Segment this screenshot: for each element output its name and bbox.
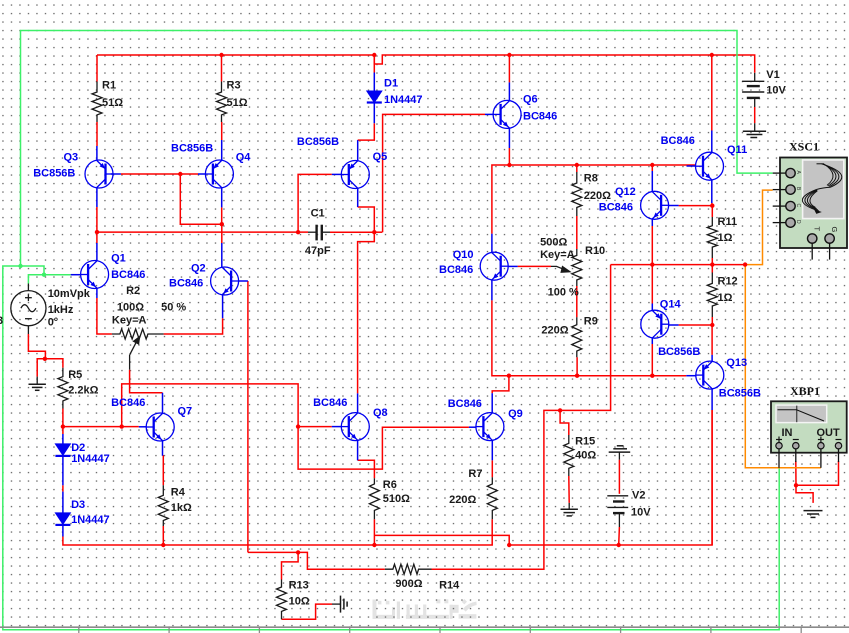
node Q3 base tie bbox=[178, 172, 182, 176]
pin Q3 collector bbox=[96, 146, 98, 160]
wire gnd branch bbox=[37, 359, 45, 377]
pin Q13 collector bbox=[711, 355, 713, 361]
wire Q8 collector long riser bbox=[358, 232, 375, 393]
pin Q2 emitter bbox=[222, 295, 224, 318]
resistor R6 510ohm bbox=[369, 478, 379, 519]
resistor R9 220ohm bbox=[572, 317, 582, 357]
transistor Q1 bbox=[81, 261, 109, 289]
wire R12 top lead bbox=[711, 265, 713, 273]
wire XBP1 IN- down bbox=[795, 461, 797, 485]
node rail Q6 bbox=[507, 53, 511, 57]
node green left bbox=[18, 264, 22, 268]
wire V+ top rail bbox=[97, 54, 374, 56]
pin Q9 collector bbox=[491, 393, 493, 413]
svg-text:1Ω: 1Ω bbox=[718, 292, 733, 304]
transistor Q12 bbox=[641, 191, 669, 219]
wire Q11 collector to rail bbox=[711, 55, 713, 131]
node C1 left bbox=[296, 230, 300, 234]
wire base node down to Q4 collector node bbox=[180, 174, 222, 224]
pin Q6 collector bbox=[508, 82, 510, 100]
node R7 rail bbox=[507, 543, 511, 547]
pin Q8 base bbox=[332, 426, 342, 428]
svg-text:2.2kΩ: 2.2kΩ bbox=[68, 385, 98, 397]
wire R1 to Q3 bbox=[96, 122, 98, 146]
wire Q3 collector down bbox=[96, 207, 98, 232]
wire output to scope B bbox=[745, 190, 773, 265]
resistor R7 220ohm bbox=[487, 477, 497, 519]
svg-text:BC846: BC846 bbox=[111, 397, 145, 409]
resistor R15 40ohm bbox=[564, 435, 574, 476]
svg-text:BC846: BC846 bbox=[448, 398, 482, 410]
pin Q1 collector bbox=[96, 243, 98, 261]
transistor Q11 bbox=[696, 152, 724, 180]
wire V3 plus lead bbox=[28, 275, 44, 284]
scope terminal B bbox=[773, 189, 786, 191]
wire node to Q14 collector bbox=[651, 265, 653, 304]
svg-text:1kHz: 1kHz bbox=[48, 304, 74, 316]
wire Q8 base stub bbox=[298, 426, 332, 428]
resistor R8 220ohm bbox=[572, 172, 582, 216]
wire Q7 Q8 base tie top bbox=[122, 384, 298, 427]
diode D2 1N4447 bbox=[55, 444, 70, 456]
svg-text:BC846: BC846 bbox=[439, 264, 473, 276]
node green V3 bbox=[42, 273, 46, 277]
svg-text:Key=A: Key=A bbox=[540, 249, 575, 261]
svg-text:900Ω: 900Ω bbox=[395, 578, 422, 590]
XBP1 terminal IN+ bbox=[776, 437, 782, 443]
node R15 tap bbox=[558, 408, 562, 412]
node Q1 collector bbox=[95, 230, 99, 234]
wire node to Q8 collector bbox=[374, 231, 382, 233]
wire R12 bottom to node bbox=[711, 317, 713, 325]
wire Q10 base to R10 wiper bbox=[518, 265, 551, 267]
svg-text:1N4447: 1N4447 bbox=[384, 94, 423, 106]
svg-text:BC856B: BC856B bbox=[658, 346, 700, 358]
transistor Q9 bbox=[476, 413, 504, 441]
wire Q13 emitter down bbox=[711, 410, 713, 545]
pin Q3 base bbox=[111, 173, 121, 175]
pin D2 top bbox=[62, 434, 64, 444]
scope trace curves bbox=[802, 164, 841, 211]
wire Q14 emitter to rail bbox=[651, 344, 653, 376]
scope terminal C bbox=[773, 205, 786, 207]
svg-text:40Ω: 40Ω bbox=[575, 449, 596, 461]
wire Q10 collector riser bbox=[492, 165, 696, 234]
oscilloscope XSC1 bbox=[773, 158, 847, 260]
battery V1 10V bbox=[742, 73, 764, 107]
node Q7 base bbox=[120, 424, 124, 428]
wire Q1 collector up bbox=[96, 232, 98, 243]
wire R2 wiper to Q7 collector bbox=[130, 370, 163, 393]
transistor Q3 bbox=[85, 160, 113, 188]
wire Q4 collector bbox=[221, 207, 223, 224]
svg-text:0°: 0° bbox=[48, 316, 59, 328]
pin Q14 base bbox=[669, 324, 679, 326]
resistor R5 2.2kohm bbox=[58, 368, 68, 409]
pin Q3 emitter bbox=[96, 188, 98, 207]
XBP1 terminal IN- bbox=[793, 439, 799, 441]
svg-text:10V: 10V bbox=[766, 85, 786, 97]
svg-text:Q3: Q3 bbox=[64, 152, 79, 164]
node Q14 emitter bbox=[650, 374, 654, 378]
potentiometer R2 wiper arrow bbox=[130, 337, 140, 370]
node rail R3 bbox=[219, 53, 223, 57]
pin Q11 collector bbox=[711, 131, 713, 153]
battery V2 10V bbox=[607, 496, 628, 527]
resistor R12 1ohm bbox=[707, 273, 717, 318]
svg-text:1kΩ: 1kΩ bbox=[171, 502, 192, 514]
node C1 right bbox=[372, 230, 376, 234]
wire R13 top bbox=[282, 552, 299, 579]
svg-text:D3: D3 bbox=[71, 499, 85, 511]
svg-text:G: G bbox=[830, 227, 839, 233]
node rail Q11 bbox=[710, 53, 714, 57]
node rail2 Q6e bbox=[507, 163, 511, 167]
svg-text:Q1: Q1 bbox=[111, 253, 126, 265]
wire XBP1 OUT- to gnd node bbox=[796, 461, 839, 503]
svg-text:10mVpk: 10mVpk bbox=[48, 288, 91, 300]
wire R1 top lead bbox=[96, 55, 98, 82]
wire V1 minus to gnd bbox=[754, 107, 756, 123]
wire R9 bottom bbox=[576, 357, 578, 376]
svg-text:Q7: Q7 bbox=[178, 406, 193, 418]
wire to R5 bbox=[45, 359, 63, 368]
wire Q4 node to Q2 collector bbox=[221, 224, 223, 243]
svg-text:R12: R12 bbox=[718, 276, 738, 288]
svg-text:BC846: BC846 bbox=[169, 278, 203, 290]
bode plotter XBP1 bbox=[771, 401, 847, 468]
wire D3 bottom to rail bbox=[63, 537, 163, 546]
resistor R13 10ohm bbox=[277, 580, 287, 620]
diode D1 1N4447 bbox=[367, 91, 382, 103]
node R9 bottom bbox=[575, 374, 579, 378]
wire V2 top bbox=[618, 460, 620, 494]
svg-text:R11: R11 bbox=[718, 216, 738, 228]
wire Q6 emitter down bbox=[508, 148, 510, 165]
wire C1 right to D1 node bbox=[330, 231, 374, 233]
svg-text:R10: R10 bbox=[585, 245, 605, 257]
pin Q7 emitter bbox=[162, 441, 164, 456]
wire C1 net horizontal bbox=[97, 231, 308, 233]
transistor Q10 bbox=[480, 252, 508, 280]
wire V3 to Q1 base bbox=[44, 274, 71, 276]
svg-text:1N4447: 1N4447 bbox=[71, 514, 110, 526]
node Q9 collector bbox=[507, 374, 511, 378]
svg-text:BC846: BC846 bbox=[111, 269, 145, 281]
svg-text:T: T bbox=[813, 227, 822, 232]
pin Q10 collector bbox=[491, 234, 493, 253]
wire Q12 base to node bbox=[679, 205, 713, 207]
wire Q6 base to node bbox=[383, 114, 485, 232]
transistor Q14 bbox=[641, 310, 669, 338]
node rail2 R8 bbox=[575, 163, 579, 167]
node V2 rail bbox=[617, 543, 621, 547]
svg-text:OUT: OUT bbox=[817, 427, 841, 439]
ground R13 rotated bbox=[332, 596, 347, 613]
wire Q7 emitter to R4 bbox=[162, 456, 165, 486]
wire Q9 collector jog bbox=[492, 376, 509, 394]
svg-text:100 %: 100 % bbox=[548, 286, 579, 298]
wire Q3 Q4 base link bbox=[121, 173, 198, 175]
resistor R11 1ohm bbox=[707, 217, 717, 258]
wire R15 bottom to gnd bbox=[568, 476, 570, 503]
pin Q9 base bbox=[469, 426, 476, 428]
svg-text:R9: R9 bbox=[584, 316, 598, 328]
wire R15 tap jog bbox=[560, 410, 569, 435]
wire output branch down bbox=[432, 265, 611, 570]
svg-text:BC856B: BC856B bbox=[171, 143, 213, 155]
transistor Q4 bbox=[205, 160, 233, 188]
pin D2 bottom bbox=[62, 456, 64, 485]
pin D1 bottom bbox=[373, 103, 375, 124]
pin Q7 collector bbox=[162, 393, 164, 413]
wire Q12 emitter down bbox=[651, 226, 653, 265]
svg-text:IN: IN bbox=[782, 427, 793, 439]
node R4 rail bbox=[161, 543, 165, 547]
wire output to XBP1 OUT+ bbox=[745, 265, 821, 468]
pin Q8 emitter bbox=[357, 440, 359, 460]
AC source V3 bbox=[11, 284, 46, 335]
scope terminal D bbox=[773, 222, 786, 224]
wire R10 to R9 bbox=[576, 286, 578, 317]
pin Q5 collector bbox=[357, 140, 359, 161]
svg-text:BC846: BC846 bbox=[313, 397, 347, 409]
svg-text:50 %: 50 % bbox=[161, 301, 186, 313]
ground V3 bbox=[29, 377, 46, 391]
pin D1 top bbox=[373, 73, 375, 92]
svg-text:R2: R2 bbox=[126, 285, 140, 297]
pin Q4 base bbox=[198, 173, 206, 175]
wire top rail jog at D1 bbox=[374, 55, 754, 73]
wire Q9 emitter to R7 bbox=[491, 460, 493, 477]
wire green top loop to scope A bbox=[21, 31, 773, 267]
svg-text:V1: V1 bbox=[766, 69, 779, 81]
svg-text:R4: R4 bbox=[171, 486, 186, 498]
pin Q12 base bbox=[669, 205, 679, 207]
svg-text:1Ω: 1Ω bbox=[718, 232, 733, 244]
pin Q1 emitter bbox=[96, 288, 98, 298]
wire R11 top lead bbox=[711, 206, 713, 217]
scope terminal T bbox=[811, 243, 813, 260]
wire Q14 base to node bbox=[679, 324, 713, 326]
svg-text:Q10: Q10 bbox=[453, 249, 474, 261]
wire R6 bottom lead bbox=[373, 519, 375, 545]
potentiometer R2 100ohm horizontal bbox=[112, 329, 164, 339]
svg-text:500Ω: 500Ω bbox=[540, 236, 567, 248]
transistor Q6 bbox=[493, 100, 521, 128]
resistor R14 900ohm horizontal bbox=[385, 564, 432, 574]
pin Q14 emitter bbox=[651, 338, 653, 344]
wire Q11 emitter to node bbox=[711, 203, 714, 206]
svg-text:100Ω: 100Ω bbox=[117, 301, 144, 313]
node R12 bottom bbox=[710, 323, 714, 327]
capacitor C1 47pF bbox=[308, 225, 330, 241]
wire D2 top bbox=[62, 427, 64, 434]
svg-text:51Ω: 51Ω bbox=[102, 97, 123, 109]
pin Q6 base bbox=[485, 113, 493, 115]
wire Q8 emitter to R6 bbox=[358, 460, 375, 478]
resistor R3 51ohm bbox=[217, 82, 227, 123]
wire R8 to R10 bbox=[576, 216, 578, 249]
pin Q5 base bbox=[332, 173, 342, 175]
wire Q8 Q9 base detour bbox=[298, 427, 469, 470]
svg-text:Q14: Q14 bbox=[660, 298, 682, 310]
svg-text:C1: C1 bbox=[311, 208, 325, 220]
pin Q13 base bbox=[686, 375, 696, 377]
resistor R1 51ohm bbox=[92, 82, 102, 123]
node R12 top bbox=[710, 262, 714, 266]
wire Q6 collector to rail bbox=[508, 55, 510, 82]
wire VEE rail bbox=[163, 519, 492, 545]
wire R13 bottom to gnd bbox=[282, 604, 333, 619]
wire R11 bottom lead bbox=[711, 258, 713, 265]
blue component pin stubs bbox=[63, 73, 712, 537]
transistor Q7 bbox=[146, 413, 174, 441]
node R6 rail bbox=[372, 543, 376, 547]
sheet border line bbox=[0, 626, 849, 628]
pin D3 bottom bbox=[62, 525, 64, 537]
node Q12 emitter bbox=[650, 262, 654, 266]
pin Q10 emitter bbox=[491, 280, 493, 300]
node Q8 base bbox=[296, 424, 300, 428]
wire R6 tap line bbox=[374, 410, 712, 545]
svg-text:220Ω: 220Ω bbox=[541, 325, 568, 337]
wire V3 bottom to gnd node bbox=[28, 334, 45, 359]
XBP1 terminal OUT- bbox=[836, 439, 842, 441]
node R5 D2 bbox=[61, 424, 65, 428]
svg-text:Q8: Q8 bbox=[373, 407, 388, 419]
pin Q4 collector bbox=[221, 188, 223, 207]
svg-text:BC856B: BC856B bbox=[33, 168, 75, 180]
svg-text:1N4447: 1N4447 bbox=[71, 453, 110, 465]
wire Q2 base to R13 R14 node bbox=[248, 551, 298, 553]
wire D1 cathode to Q5 bbox=[358, 123, 375, 140]
svg-text:BC856B: BC856B bbox=[719, 387, 761, 399]
pin Q12 collector bbox=[651, 171, 653, 192]
svg-text:R8: R8 bbox=[584, 173, 598, 185]
transistor Q13 bbox=[696, 361, 724, 389]
wire R2 right to Q2 emitter bbox=[164, 318, 223, 334]
svg-text:R14: R14 bbox=[439, 579, 460, 591]
wire R5 bottom to node bbox=[62, 409, 64, 427]
potentiometer R10 wiper arrow bbox=[551, 266, 570, 272]
transistor Q8 bbox=[341, 413, 369, 441]
svg-text:47pF: 47pF bbox=[305, 245, 331, 257]
svg-text:220Ω: 220Ω bbox=[584, 190, 611, 202]
transistor Q5 bbox=[341, 161, 369, 189]
node rail2 Q12 bbox=[650, 163, 654, 167]
ground XBP1 bbox=[804, 511, 823, 518]
node XBP gnd bbox=[794, 483, 798, 487]
svg-text:R13: R13 bbox=[289, 579, 309, 591]
pin Q13 emitter bbox=[711, 389, 713, 410]
node V3 gnd bbox=[43, 357, 47, 361]
pin Q5 emitter bbox=[357, 188, 359, 207]
pin Q1 base bbox=[71, 274, 81, 276]
svg-text:XBP1: XBP1 bbox=[790, 384, 820, 398]
wire output net bbox=[611, 264, 746, 266]
svg-text:BC846: BC846 bbox=[523, 111, 557, 123]
svg-text:R5: R5 bbox=[68, 369, 82, 381]
wire R14 left bbox=[298, 552, 385, 569]
wire Q12 collector stub bbox=[651, 165, 653, 171]
diode D3 1N4447 bbox=[55, 513, 70, 525]
wire D2 D3 link bbox=[62, 485, 64, 491]
svg-text:R1: R1 bbox=[102, 80, 116, 92]
wire R8 top lead bbox=[576, 165, 578, 172]
svg-text:Q6: Q6 bbox=[523, 93, 538, 105]
ground R15 bbox=[561, 503, 578, 516]
wire Q5 base riser bbox=[298, 174, 332, 232]
wire loop to left rail bbox=[21, 266, 45, 275]
svg-text:BC856B: BC856B bbox=[297, 136, 339, 148]
svg-text:D1: D1 bbox=[384, 78, 398, 90]
pin Q14 collector bbox=[651, 304, 653, 311]
svg-text:V2: V2 bbox=[632, 490, 645, 502]
node scope tap bbox=[743, 262, 747, 266]
svg-text:10Ω: 10Ω bbox=[289, 596, 310, 608]
svg-text:C: C bbox=[795, 204, 801, 208]
svg-text:Q12: Q12 bbox=[615, 186, 636, 198]
svg-text:D2: D2 bbox=[71, 442, 85, 454]
watermark khamsat bbox=[373, 599, 477, 619]
svg-text:Q11: Q11 bbox=[727, 144, 747, 156]
svg-text:10V: 10V bbox=[631, 507, 651, 519]
pin Q12 emitter bbox=[651, 219, 653, 226]
pin Q2 collector bbox=[221, 243, 223, 267]
svg-text:Key=A: Key=A bbox=[112, 315, 147, 327]
svg-text:Q2: Q2 bbox=[191, 263, 206, 275]
node Q4 collector bbox=[220, 222, 224, 226]
svg-text:Q13: Q13 bbox=[726, 357, 747, 369]
wire R3 top lead bbox=[221, 55, 223, 82]
svg-text:D: D bbox=[795, 220, 801, 224]
wire Q5 emitter to node bbox=[358, 207, 375, 232]
scope terminal A bbox=[773, 172, 786, 174]
svg-text:XSC1: XSC1 bbox=[789, 140, 819, 154]
wire node to Q13 collector bbox=[711, 325, 713, 355]
pin Q6 emitter bbox=[508, 128, 510, 148]
pin D3 top bbox=[62, 492, 64, 513]
svg-text:R6: R6 bbox=[383, 479, 397, 491]
node R11 top bbox=[710, 204, 714, 208]
svg-text:Q5: Q5 bbox=[373, 151, 388, 163]
svg-text:510Ω: 510Ω bbox=[383, 493, 410, 505]
wire V2 bottom to rail bbox=[618, 527, 621, 545]
svg-text:Q4: Q4 bbox=[236, 152, 252, 164]
pin Q9 emitter bbox=[491, 440, 493, 460]
svg-text:R7: R7 bbox=[468, 468, 482, 480]
svg-text:Q9: Q9 bbox=[508, 408, 523, 420]
wire Q10 emitter down bbox=[492, 300, 686, 375]
pin Q2 base bbox=[239, 280, 248, 282]
svg-text:BC846: BC846 bbox=[599, 201, 633, 213]
orange scope wires bbox=[745, 190, 821, 468]
ground V1 bbox=[743, 123, 766, 137]
svg-text:BC846: BC846 bbox=[661, 135, 695, 147]
pin Q11 emitter bbox=[711, 180, 713, 203]
pin Q7 base bbox=[139, 426, 147, 428]
transistor Q2 bbox=[211, 267, 239, 295]
pin Q8 collector bbox=[357, 393, 359, 413]
svg-text:R15: R15 bbox=[575, 436, 595, 448]
wire R3 to Q4 bbox=[221, 122, 223, 140]
pin Q10 base bbox=[508, 265, 517, 267]
potentiometer R10 500ohm bbox=[572, 249, 582, 286]
scope terminal G bbox=[829, 243, 831, 260]
wire green bottom loop to XBP1 IN+ bbox=[3, 266, 779, 630]
wire D1 anode bbox=[373, 55, 375, 73]
